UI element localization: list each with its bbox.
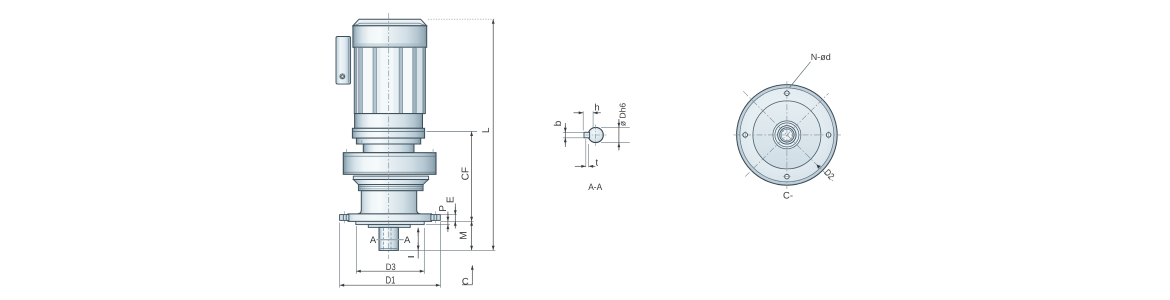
dim oDh6 bbox=[618, 119, 620, 151]
ext line: D1 right bbox=[439, 222, 441, 288]
ext lines oD bbox=[601, 126, 630, 128]
ext line: spigot bottom (P) bbox=[426, 224, 450, 226]
bolt hole centerline ticks on flange side view bbox=[344, 211, 346, 224]
svg-text:C-: C- bbox=[783, 190, 793, 201]
flange chamfer circle bbox=[740, 88, 834, 182]
neck bbox=[363, 144, 414, 153]
bolt hole left bbox=[743, 133, 748, 138]
ext line: shaft end bbox=[400, 249, 496, 251]
svg-text:A: A bbox=[370, 235, 377, 246]
dim D1 bbox=[340, 284, 441, 286]
centerline (vertical dash-dot, over body) bbox=[388, 13, 390, 259]
ext line: flange top face (E) bbox=[441, 214, 457, 216]
svg-text:M: M bbox=[459, 231, 470, 239]
svg-text:D3: D3 bbox=[386, 262, 396, 272]
dim l label (rotated l = dash) bbox=[408, 256, 414, 258]
svg-text:h: h bbox=[594, 103, 599, 114]
dim D3 bbox=[356, 270, 424, 272]
centerline horizontal bbox=[734, 134, 841, 136]
svg-text:CF: CF bbox=[461, 167, 472, 180]
bolt hole bottom bbox=[785, 174, 790, 179]
dim h bbox=[574, 112, 601, 114]
svg-text:A-A: A-A bbox=[588, 182, 603, 192]
upper gear band bbox=[356, 138, 420, 144]
ext line: cowl top (for L) bbox=[428, 18, 496, 20]
big gear ring bbox=[343, 153, 436, 175]
terminal box bbox=[336, 37, 351, 85]
N-od leader bbox=[790, 62, 811, 88]
key cross-section bbox=[584, 132, 590, 138]
centerline vertical bbox=[786, 81, 788, 189]
chamfer transition bbox=[353, 180, 428, 185]
svg-text:ø Dh6: ø Dh6 bbox=[617, 103, 627, 126]
flange left bolt tab bbox=[340, 215, 349, 221]
motor bottom bell ring bbox=[355, 114, 423, 129]
flange plate (side view) bbox=[348, 214, 432, 222]
svg-text:E: E bbox=[445, 196, 456, 203]
hub circles bbox=[773, 121, 801, 149]
svg-text:b: b bbox=[553, 120, 564, 126]
dim t bbox=[575, 165, 596, 167]
motor fin shading bands bbox=[355, 48, 357, 114]
fan cowl top face bbox=[353, 19, 427, 26]
flange rim shading bbox=[738, 86, 835, 183]
dim P (outside arrows) bbox=[447, 212, 449, 229]
svg-text:A: A bbox=[404, 235, 411, 246]
motor fins bbox=[356, 48, 423, 113]
spigot step 2 bbox=[368, 225, 410, 228]
D2 arrow on bolt circle bbox=[817, 165, 821, 169]
svg-text:C: C bbox=[462, 276, 469, 287]
section cut line A-A bbox=[377, 239, 404, 241]
svg-text:t: t bbox=[595, 158, 598, 169]
dim CF bbox=[471, 132, 473, 222]
inner face circle bbox=[753, 101, 821, 169]
ext lines b bbox=[563, 131, 585, 133]
fan cowl band bbox=[353, 26, 427, 48]
ext line: D1 left bbox=[339, 223, 341, 288]
shaft section circle bbox=[588, 127, 603, 142]
bolt hole right bbox=[826, 133, 831, 138]
lower hub cylinder bbox=[357, 191, 420, 214]
shaft keyway hidden lines bbox=[383, 228, 385, 250]
dim E (outside arrows) bbox=[454, 204, 456, 227]
hidden-edge ticks big ring corners bbox=[345, 149, 347, 153]
dim b bbox=[564, 123, 566, 147]
step band below big ring bbox=[353, 176, 428, 179]
diagonal centerline TL-BR (D2 bolt circle line) bbox=[743, 91, 833, 181]
bearing cover band bbox=[358, 185, 423, 191]
spigot step 1 bbox=[356, 221, 424, 224]
bolt hole top bbox=[785, 91, 790, 96]
dim M bbox=[471, 221, 473, 250]
motor body bottom edge bbox=[354, 113, 425, 115]
terminal box screw bbox=[340, 74, 345, 79]
output shaft bbox=[379, 227, 398, 250]
hidden-edge ticks neck corners bbox=[361, 140, 363, 144]
dim L bbox=[492, 19, 494, 250]
ext line: flange bottom face bbox=[440, 220, 473, 222]
svg-text:D1: D1 bbox=[386, 276, 396, 287]
svg-text:N-ød: N-ød bbox=[811, 52, 831, 62]
flange right bolt tab bbox=[431, 215, 440, 221]
ext line: CF top at gearbox flange bbox=[426, 131, 477, 133]
ext line: D3 right bbox=[423, 228, 425, 274]
ext line: D3 left bbox=[355, 226, 357, 274]
ext lines h bbox=[582, 111, 584, 130]
section centerlines bbox=[586, 134, 607, 136]
gearbox input flange ring bbox=[352, 128, 424, 138]
flange outer circle bbox=[737, 85, 837, 185]
fan cowl top bevel line bbox=[353, 23, 427, 26]
ext lines t bbox=[585, 139, 587, 167]
svg-text:P: P bbox=[438, 205, 449, 212]
svg-text:L: L bbox=[481, 127, 492, 133]
dim C leader bbox=[471, 265, 473, 285]
diagonal centerline BL-TR bbox=[745, 93, 828, 176]
motor finned body bbox=[354, 47, 425, 113]
dim l (shaft length) bbox=[417, 228, 419, 259]
